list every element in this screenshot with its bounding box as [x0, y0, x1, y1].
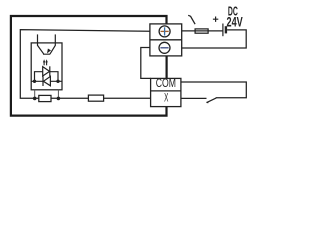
wire COM to external switch — [181, 82, 246, 98]
phototransistor collector lead — [37, 34, 39, 45]
svg-text:24V: 24V — [226, 15, 242, 30]
battery + label — [213, 17, 218, 22]
wire X terminal to external switch — [181, 97, 207, 99]
divider between + and - terminal — [150, 39, 182, 41]
LED D2 (points left) — [43, 76, 50, 86]
fuse F1 — [195, 29, 208, 33]
junction dot LED left — [33, 80, 36, 83]
light arrow 2 — [45, 59, 47, 65]
resistor R1 (parallel with LED) — [39, 95, 51, 101]
svg-text:X: X — [164, 91, 169, 105]
wire + terminal to internal rail (top) and left rail down to bottom rail — [20, 30, 150, 99]
battery positive plate — [222, 24, 224, 37]
wire battery to - terminal — [182, 30, 247, 48]
LED pair lower branch wire — [31, 80, 62, 82]
LED D1 (points right) — [43, 66, 50, 76]
internal link - terminal to COM — [166, 56, 168, 79]
terminal + (circle with plus) — [159, 26, 170, 37]
wire - terminal to COM box (left loop) — [141, 48, 151, 79]
terminal block upper (+/- terminals) — [150, 24, 182, 56]
opto pin right — [57, 90, 59, 99]
PLC enclosure outer box — [11, 16, 167, 116]
junction dot bottom wire right — [57, 97, 61, 101]
wire + terminal to battery (top right) — [182, 30, 223, 32]
terminal block lower (COM / X) — [151, 78, 181, 106]
phototransistor emitter arrow — [47, 49, 51, 54]
opto pin left — [34, 90, 36, 99]
light arrow 1 — [43, 59, 45, 65]
battery negative plate — [225, 26, 227, 33]
junction dot bottom wire left — [33, 97, 37, 101]
power switch blade (open) — [188, 15, 195, 24]
optocoupler U1 package box — [31, 43, 62, 90]
svg-text:COM: COM — [156, 77, 176, 91]
phototransistor body (V + base bar) — [38, 45, 56, 54]
junction dot LED right — [56, 80, 59, 83]
external input switch blade — [206, 98, 216, 103]
phototransistor emitter lead — [54, 34, 56, 45]
LED pair upper branch wire — [35, 72, 59, 82]
resistor R2 (series to X) — [88, 95, 103, 101]
terminal - (circle with minus) — [159, 42, 170, 53]
divider between COM and X — [151, 90, 181, 92]
